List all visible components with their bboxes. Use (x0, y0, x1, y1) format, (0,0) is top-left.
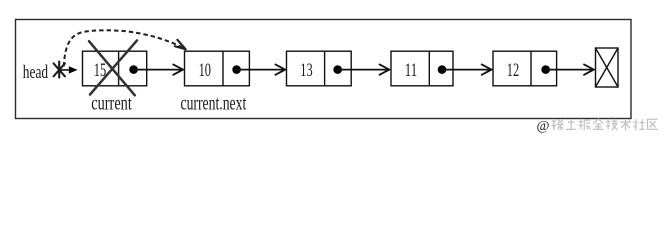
svg-text:13: 13 (300, 60, 312, 81)
svg-text:@: @ (537, 119, 550, 134)
svg-text:10: 10 (199, 60, 211, 81)
svg-text:current.next: current.next (181, 92, 247, 114)
svg-text:head: head (23, 62, 49, 83)
svg-text:current: current (91, 92, 132, 114)
svg-text:15: 15 (94, 60, 106, 81)
svg-text:11: 11 (405, 60, 417, 81)
svg-text:12: 12 (507, 60, 519, 81)
